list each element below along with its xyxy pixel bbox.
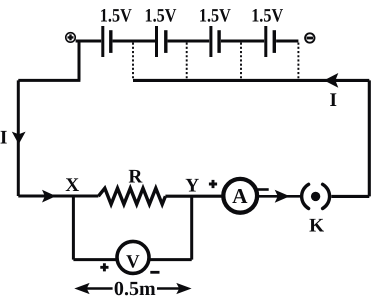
svg-text:0.5m: 0.5m xyxy=(114,278,156,300)
svg-text:1.5V: 1.5V xyxy=(100,6,132,27)
svg-text:1.5V: 1.5V xyxy=(251,6,283,27)
svg-text:R: R xyxy=(128,166,143,187)
svg-text:1.5V: 1.5V xyxy=(145,6,177,27)
svg-text:K: K xyxy=(309,216,324,237)
svg-text:X: X xyxy=(65,175,79,196)
svg-text:V: V xyxy=(126,251,140,272)
svg-text:I: I xyxy=(329,90,337,111)
svg-text:Y: Y xyxy=(185,175,199,196)
svg-text:I: I xyxy=(0,128,7,149)
svg-text:1.5V: 1.5V xyxy=(199,6,231,27)
svg-text:A: A xyxy=(232,184,248,208)
